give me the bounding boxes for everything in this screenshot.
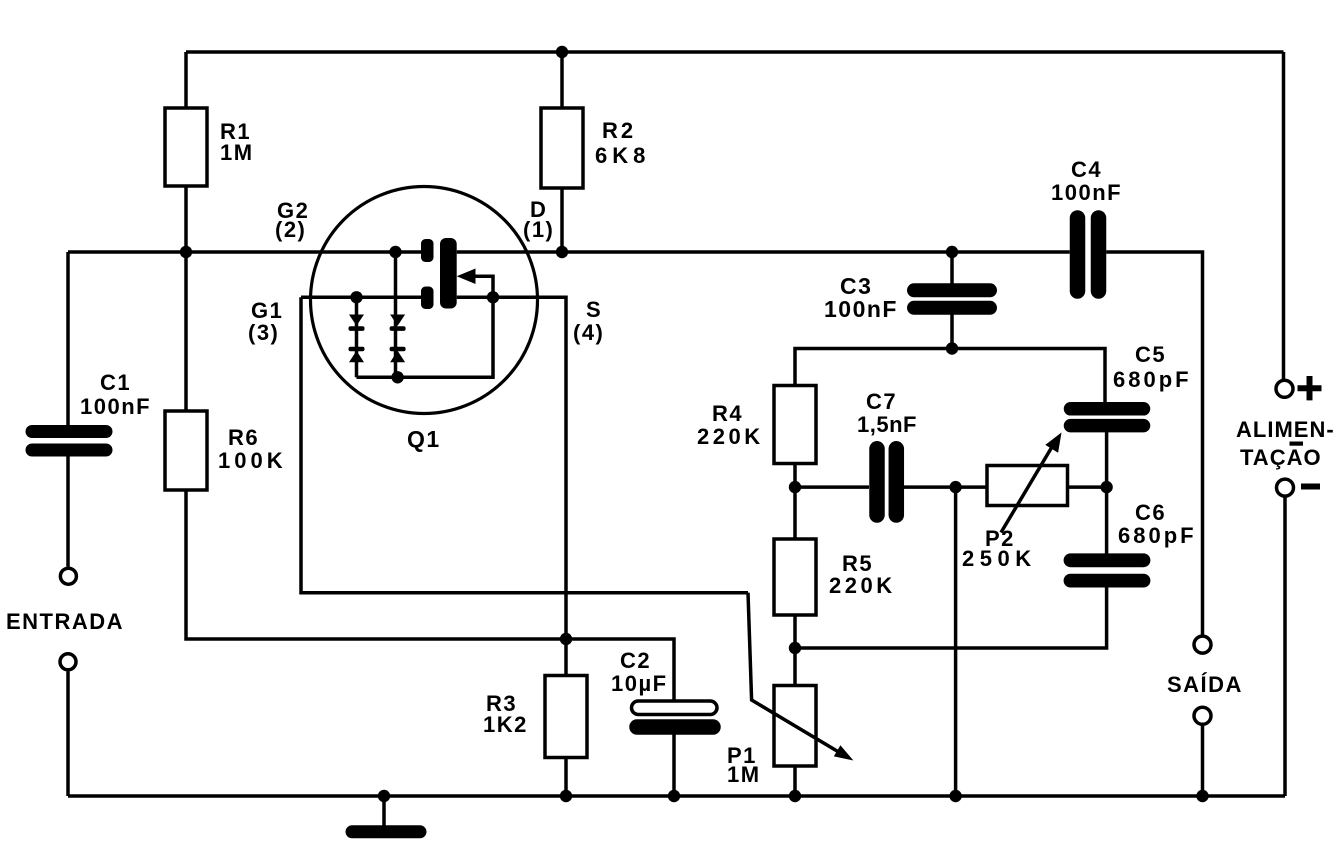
svg-text:100K: 100K <box>218 448 287 473</box>
capacitor C7 plate right <box>889 449 905 515</box>
wire C6 bottom to R5 <box>795 587 1107 648</box>
wire C2 bottom lead <box>672 734 676 796</box>
wire drain bus <box>457 250 1070 254</box>
junction R2-drain <box>556 246 568 258</box>
capacitor C2 plate bottom <box>637 719 713 735</box>
wire C5 bottom lead <box>1105 431 1109 488</box>
wire R4 bottom lead <box>793 463 797 487</box>
terminal alimentacao plus <box>1276 380 1293 397</box>
wire positive supply drop <box>1282 52 1286 381</box>
svg-text:1,5nF: 1,5nF <box>857 412 917 437</box>
junction R4-R5-C7 <box>789 481 801 493</box>
wire P1 top lead <box>793 648 797 685</box>
P1 wiper arrowhead <box>834 745 854 760</box>
wire R6 bottom to C2 <box>186 490 674 702</box>
svg-text:R4: R4 <box>712 401 743 426</box>
junction R3 ground <box>560 790 572 802</box>
svg-text:100nF: 100nF <box>824 296 898 322</box>
wire R1 top lead <box>184 52 188 108</box>
junction ground symbol <box>378 790 390 802</box>
terminal saida upper <box>1194 636 1211 653</box>
svg-text:C4: C4 <box>1071 157 1102 182</box>
wire substrate tap <box>468 276 493 297</box>
svg-text:(1): (1) <box>523 217 554 242</box>
svg-text:ENTRADA: ENTRADA <box>6 609 124 634</box>
junction substrate-source <box>487 291 499 303</box>
svg-text:C7: C7 <box>866 389 897 414</box>
junction C3 bottom <box>946 342 958 354</box>
junction G1 diode tap <box>350 291 362 303</box>
svg-text:S: S <box>586 297 602 322</box>
svg-text:250K: 250K <box>962 546 1037 571</box>
junction P1 ground <box>789 790 801 802</box>
potentiometer P1 body <box>774 686 816 767</box>
svg-text:Q1: Q1 <box>407 426 441 452</box>
svg-text:C2: C2 <box>620 648 651 673</box>
capacitor C1 plate top <box>32 425 106 438</box>
wire G2 bus left <box>68 250 421 254</box>
svg-text:C6: C6 <box>1135 500 1166 525</box>
svg-text:1M: 1M <box>727 762 761 787</box>
wire R6 top lead <box>184 252 188 411</box>
junction R6-R3 node <box>560 633 572 645</box>
junction drop ground <box>949 790 961 802</box>
wire top supply rail <box>186 50 1284 54</box>
resistor R4 <box>774 386 816 464</box>
wire R2 top lead <box>560 52 564 108</box>
diode D3 upper (G2 string) <box>390 315 405 326</box>
capacitor C7 plate left <box>869 449 885 515</box>
wire P1 wiper diagonal <box>748 593 846 757</box>
svg-text:(4): (4) <box>573 320 604 345</box>
wire C3 top lead <box>950 252 954 284</box>
wire R5 bottom lead <box>793 615 797 648</box>
diode D1 upper (G1 string) <box>349 315 364 326</box>
capacitor C1 plate bottom <box>32 444 106 457</box>
capacitor C3 plate top <box>914 283 990 297</box>
resistor R3 <box>545 676 587 758</box>
wire filter top rail <box>795 349 1105 404</box>
P2 wiper arrowhead <box>1045 433 1061 453</box>
svg-text:SAÍDA: SAÍDA <box>1167 672 1243 697</box>
junction C3 top <box>946 246 958 258</box>
wire negative supply drop <box>1283 498 1287 797</box>
wire R3 bottom lead <box>564 758 568 797</box>
wire G1 diode branch <box>355 297 359 377</box>
junction R2 top rail <box>556 46 568 58</box>
wire G1 line <box>301 296 421 300</box>
capacitor C6 plate bottom <box>1071 574 1144 588</box>
svg-text:R6: R6 <box>228 425 259 450</box>
diode D4 lower (G2 string) <box>390 347 406 352</box>
wire P2 to C5C6 node <box>1068 485 1107 489</box>
svg-text:6K8: 6K8 <box>595 143 650 168</box>
wire P1 bottom lead <box>793 766 797 796</box>
wire G1 drop to P1 <box>301 297 748 592</box>
label TACAO macron accent <box>1290 442 1304 446</box>
svg-text:100nF: 100nF <box>1051 180 1122 205</box>
wire ground symbol stem <box>382 796 386 826</box>
capacitor C5 plate bottom <box>1071 419 1144 433</box>
resistor R2 <box>541 108 583 188</box>
wire diode return to source <box>357 297 494 377</box>
wire saida bottom lead <box>1201 726 1205 797</box>
junction saida ground <box>1196 790 1208 802</box>
svg-text:220K: 220K <box>697 424 764 449</box>
svg-text:ALIMEN-: ALIMEN- <box>1236 417 1335 442</box>
Q1 gate G1 bar <box>421 287 434 310</box>
terminal entrada upper <box>60 568 76 584</box>
ground symbol bar <box>352 825 420 838</box>
junction R1-R6 bus <box>180 246 192 258</box>
wire C6 top lead <box>1105 487 1109 554</box>
plus sign <box>1298 376 1322 400</box>
junction P2-C5-C6 <box>1100 481 1112 493</box>
terminal alimentacao minus <box>1277 479 1294 496</box>
transistor Q1 envelope <box>311 187 538 414</box>
svg-text:(3): (3) <box>248 320 279 345</box>
svg-text:C1: C1 <box>100 370 131 395</box>
wire C4 to saida drop <box>1106 252 1202 636</box>
Q1 channel bar <box>440 238 457 309</box>
diode D2 lower (G1 string) <box>349 347 365 352</box>
wire ground bus <box>68 794 1285 798</box>
junction diode return <box>391 371 403 383</box>
wire R2 bottom lead <box>560 188 564 252</box>
svg-text:TAÇAO: TAÇAO <box>1240 445 1322 470</box>
wire R5 top lead <box>793 487 797 539</box>
svg-text:1M: 1M <box>220 140 254 165</box>
resistor R1 <box>165 108 207 186</box>
junction C7-P2 drop <box>949 481 961 493</box>
svg-text:C5: C5 <box>1135 342 1166 367</box>
junction R5-P1-C6 <box>789 642 801 654</box>
svg-text:680pF: 680pF <box>1113 367 1192 392</box>
svg-text:R2: R2 <box>602 118 636 143</box>
capacitor C4 plate left <box>1070 218 1086 291</box>
terminal saida lower <box>1194 707 1211 724</box>
capacitor C4 plate right <box>1091 218 1107 291</box>
wire C1 bottom lead <box>66 457 70 567</box>
Q1 substrate arrowhead <box>457 269 476 285</box>
svg-text:1K2: 1K2 <box>483 712 528 737</box>
wire G2 diode branch <box>394 252 398 377</box>
wire P2 wiper diagonal <box>1001 446 1053 533</box>
wire C7 to P2 <box>904 485 988 489</box>
potentiometer P2 body <box>987 466 1068 506</box>
resistor R6 <box>165 411 207 490</box>
resistor R5 <box>774 539 816 615</box>
junction G2 diode tap <box>389 246 401 258</box>
junction C2 ground <box>668 790 680 802</box>
terminal entrada lower <box>60 654 76 670</box>
wire C1 top lead <box>66 252 70 426</box>
svg-text:220K: 220K <box>829 573 896 598</box>
Q1 gate G2 bar <box>421 239 434 262</box>
capacitor C3 plate bottom <box>914 301 990 315</box>
wire source line <box>457 297 566 675</box>
wire R1 bottom lead <box>184 186 188 252</box>
capacitor C2 plate top (polarized hollow) <box>632 701 718 715</box>
svg-text:(2): (2) <box>275 217 306 242</box>
capacitor C5 plate top <box>1071 402 1144 416</box>
wire node junction R4-C7 <box>795 485 869 489</box>
wire C3 bottom lead <box>950 314 954 349</box>
svg-text:680pF: 680pF <box>1118 523 1197 548</box>
svg-text:10µF: 10µF <box>611 671 668 696</box>
wire junction drop to ground bus <box>954 487 958 796</box>
wire entrada lower lead <box>66 672 70 797</box>
svg-text:100nF: 100nF <box>80 394 151 419</box>
minus sign <box>1301 484 1320 490</box>
capacitor C6 plate top <box>1071 553 1144 567</box>
